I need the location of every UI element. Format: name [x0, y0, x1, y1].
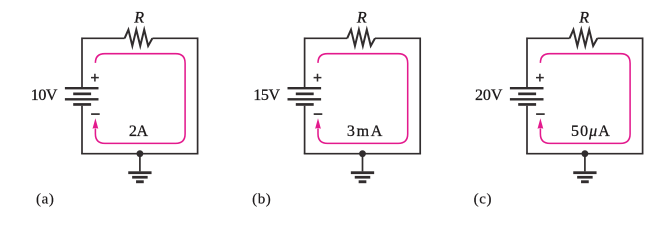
circuit (a) : source 10V with resistor R, current 2A [31, 10, 199, 208]
wire left lower (battery - plate to bottom) [526, 106, 528, 154]
current loop arrow (clockwise, 50μA) [540, 54, 630, 144]
ground stem wire [584, 154, 586, 172]
ground bar 1 (widest) [573, 171, 596, 174]
battery 10V plate 1 (long, +) [65, 87, 99, 89]
current arrowhead (points up at - terminal) [538, 118, 544, 129]
battery - polarity mark [91, 113, 100, 115]
ground bar 2 [577, 176, 593, 179]
svg-text:R: R [578, 10, 589, 27]
battery plate 2 (short) [73, 93, 91, 96]
battery plate 3 (long) [65, 98, 99, 100]
ground stem wire [139, 154, 141, 172]
wire left lower (battery - plate to bottom) [304, 106, 306, 154]
battery plate 4 (short, -) [518, 103, 536, 106]
current loop arrow (clockwise, 3mA) [318, 54, 408, 144]
wire left upper (into battery + plate) [526, 37, 528, 87]
wire bottom (return path through ground node) [304, 153, 421, 155]
wire top-left (from source + terminal to resistor R) [82, 37, 125, 39]
ground bar 3 (narrowest) [581, 180, 589, 183]
svg-text:(b): (b) [252, 192, 271, 208]
svg-text:2A: 2A [129, 123, 149, 140]
wire bottom (return path through ground node) [526, 153, 643, 155]
svg-text:R: R [356, 10, 367, 27]
node: junction dot on bottom wire [582, 150, 589, 157]
svg-text:R: R [133, 10, 144, 27]
wire right side [419, 37, 421, 153]
ground bar 3 (narrowest) [359, 180, 367, 183]
battery plate 4 (short, -) [296, 103, 314, 106]
battery plate 2 (short) [518, 93, 536, 96]
wire left upper (into battery + plate) [81, 37, 83, 87]
wire top-right (resistor R to right side) [375, 37, 420, 39]
svg-text:20V: 20V [475, 87, 503, 104]
battery plate 3 (long) [288, 98, 322, 100]
battery - polarity mark [314, 113, 323, 115]
wire top-left (from source + terminal to resistor R) [305, 37, 348, 39]
ground bar 2 [355, 176, 371, 179]
svg-text:50μA: 50μA [571, 123, 610, 140]
ground bar 2 [132, 176, 148, 179]
wire right side [197, 37, 199, 153]
wire top-right (resistor R to right side) [152, 37, 197, 39]
current arrowhead (points up at - terminal) [315, 118, 321, 129]
ground bar 3 (narrowest) [136, 180, 144, 183]
node: junction dot on bottom wire [137, 150, 144, 157]
resistor R (zigzag) [125, 30, 153, 46]
ground bar 1 (widest) [351, 171, 374, 174]
current arrowhead (points up at - terminal) [93, 118, 99, 129]
battery - polarity mark [536, 113, 545, 115]
svg-text:(c): (c) [474, 192, 492, 208]
battery + polarity mark [536, 74, 544, 82]
resistor R (zigzag) [347, 30, 375, 46]
current loop arrow (clockwise, 2A) [95, 54, 185, 144]
node: junction dot on bottom wire [359, 150, 366, 157]
wire top-left (from source + terminal to resistor R) [527, 37, 570, 39]
battery + polarity mark [91, 74, 99, 82]
ground stem wire [362, 154, 364, 172]
svg-text:10V: 10V [31, 87, 58, 104]
wire left lower (battery - plate to bottom) [81, 106, 83, 154]
battery plate 4 (short, -) [73, 103, 91, 106]
svg-text:15V: 15V [253, 87, 280, 104]
circuit (c) : source 20V with resistor R, current 50μA [474, 10, 644, 208]
battery + polarity mark [314, 74, 322, 82]
wire bottom (return path through ground node) [81, 153, 198, 155]
circuit (b) : source 15V with resistor R, current 3mA [252, 10, 421, 208]
ground bar 1 (widest) [128, 171, 151, 174]
battery 15V plate 1 (long, +) [288, 87, 322, 89]
wire left upper (into battery + plate) [304, 37, 306, 87]
resistor R (zigzag) [570, 30, 598, 46]
svg-text:(a): (a) [36, 192, 54, 208]
battery plate 3 (long) [510, 98, 544, 100]
wire top-right (resistor R to right side) [597, 37, 642, 39]
svg-text:3mA: 3mA [347, 123, 383, 140]
battery plate 2 (short) [296, 93, 314, 96]
battery 20V plate 1 (long, +) [510, 87, 544, 89]
wire right side [642, 37, 644, 153]
